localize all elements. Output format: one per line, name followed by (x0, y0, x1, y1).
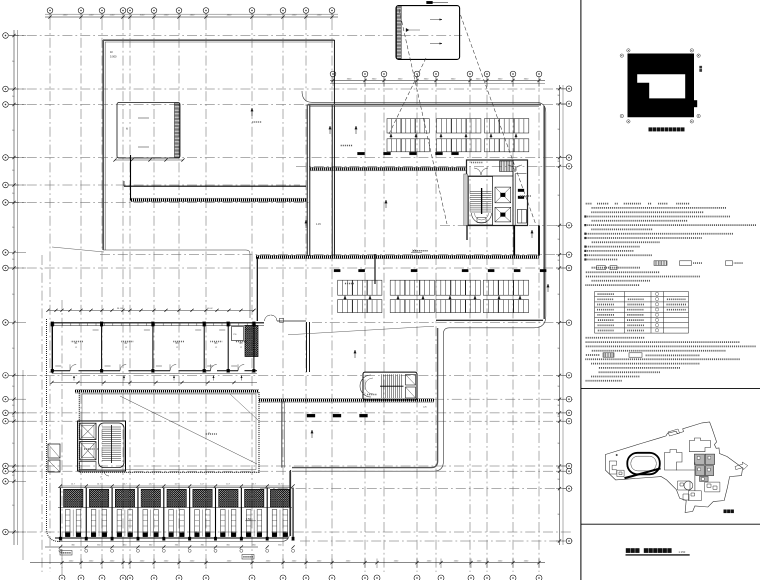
core U2 small room (80, 462, 96, 470)
key plan black figure (628, 54, 695, 118)
hatched wall bar hall top (75, 388, 259, 390)
site plan label (724, 510, 727, 514)
east wing south wall (436, 319, 543, 321)
stair S3 (99, 423, 124, 468)
shop unit 4 lower strips (143, 510, 148, 537)
shop unit 3 lower strips (117, 510, 122, 537)
east wing outer boundary (292, 91, 546, 471)
title panel separator (580, 0, 582, 580)
svg-text:20.02: 20.02 (207, 308, 213, 310)
top dimension line (45, 12, 338, 20)
shops row top lines (58, 487, 292, 489)
title underline (626, 554, 690, 555)
shop party walls (59, 488, 61, 541)
site dot (616, 454, 618, 456)
stair S1 west strip (464, 174, 468, 226)
corridor door arrows (73, 376, 75, 381)
core U1 top strip wall (467, 175, 514, 177)
notes after table (585, 338, 756, 381)
site west buildings (609, 461, 616, 474)
entrance door arcs (265, 315, 271, 321)
site arrow (735, 462, 748, 470)
bottom dimension lines (30, 545, 545, 568)
key plan corner targets (620, 54, 623, 57)
hall inner line (82, 394, 256, 470)
detached block top marker (427, 1, 433, 4)
lower building outer bottom boundary (58, 471, 290, 541)
section reference dashed diagonals (399, 9, 447, 224)
room divider walls (51, 326, 53, 371)
shop unit 3 hatch (115, 489, 134, 507)
annotation arrows (251, 108, 253, 116)
small dimension row above lower building (46, 308, 255, 312)
boxed labels bottom (60, 551, 72, 556)
shop unit 9 hatch (270, 489, 289, 507)
shop unit 5 lower strips (169, 510, 174, 537)
svg-text:1:150: 1:150 (679, 550, 686, 554)
notes continued (585, 272, 700, 285)
site center building 2 (689, 438, 710, 452)
legend symbols (654, 261, 667, 266)
left grid bubbles (3, 33, 9, 535)
hall west annex boxes (48, 444, 60, 458)
core U1 wall stubs (513, 226, 515, 256)
wall markers row C (307, 414, 315, 417)
detached block hatch strip (397, 6, 402, 59)
svg-text:1:50: 1:50 (246, 518, 251, 521)
bottom grid bubbles (59, 575, 542, 580)
left dimension lines (9, 30, 26, 560)
upper block north wall (103, 39, 335, 41)
core U1 hatch strip (500, 161, 514, 172)
shop unit 5 hatch (167, 489, 186, 507)
row grid lines (horizontal) (9, 36, 573, 542)
small dimension row below room 1 (113, 158, 184, 161)
general notes text block (584, 204, 756, 261)
parking lane arrows (390, 134, 392, 139)
interior wall L horizontal (124, 185, 306, 187)
shop unit 2 lower strips (91, 510, 96, 537)
wall markers row A (358, 152, 365, 155)
svg-text:1F: 1F (110, 50, 113, 54)
east yard boundary wall (292, 328, 438, 468)
corridor dimension row (50, 381, 257, 384)
upper block east wall (333, 40, 335, 256)
core U2 outline (78, 421, 126, 471)
stair S4 hatched block (245, 326, 258, 357)
rooms south wall with door openings (52, 370, 70, 372)
hatched wall bar 3 (256, 254, 539, 256)
lower building north wall (52, 322, 264, 324)
wall markers row B (334, 269, 340, 272)
lower building east wall (290, 470, 292, 536)
panel separator 3 (581, 523, 760, 525)
wall stub at bar3 west end (256, 257, 258, 321)
hall dotted border (79, 391, 259, 472)
parking stalls band 1 row 2 (387, 139, 429, 152)
panel separator 2 (581, 387, 760, 389)
parking stalls band 2 row 2 (338, 300, 382, 313)
elevator shaft E3 (80, 423, 96, 439)
site plan edge building (668, 429, 680, 436)
detached block outline (396, 6, 460, 60)
key plan caption (649, 127, 653, 131)
core U1 door arcs (474, 168, 488, 175)
secondary top dimension line (east wing) (330, 76, 545, 86)
shop unit 6 lower strips (195, 510, 200, 537)
elevator shaft E2 (495, 207, 511, 222)
site road line (694, 463, 696, 491)
running track (627, 453, 660, 475)
shop unit 1 lower strips (65, 510, 70, 537)
stair S2 treads (381, 374, 383, 398)
east wing grid bubbles (330, 71, 542, 77)
drawing title (626, 548, 630, 553)
shop unit 7 lower strips (221, 510, 226, 537)
hatched wall bar 1 (131, 197, 307, 199)
site plan boundary (605, 422, 742, 513)
terrace dotted boundary west (47, 319, 61, 542)
stair S2 outline (363, 372, 417, 400)
room door arcs (70, 365, 76, 371)
hall diagonals (120, 396, 257, 464)
top grid bubbles (47, 8, 335, 14)
room R1 labels (138, 117, 149, 119)
lower building north wall east segment (277, 320, 306, 322)
svg-text:5.000: 5.000 (110, 55, 117, 59)
stair S3 door arc (104, 471, 109, 476)
shop unit 8 hatch (245, 489, 264, 507)
svg-text:38.100: 38.100 (117, 308, 124, 310)
right grid bubbles (566, 86, 572, 544)
east wing north wall (308, 104, 541, 106)
shop unit 8 lower strips (246, 510, 251, 537)
core U1 outline (467, 160, 528, 226)
shop unit 6 hatch (193, 489, 212, 507)
parking stalls band 2 row 1 (338, 280, 382, 295)
shop unit 4 hatch (141, 489, 160, 507)
room R1 outline (117, 103, 180, 159)
right dimension line (556, 85, 566, 545)
shop unit 1 hatch (64, 489, 83, 507)
hatched wall bar 4 (259, 398, 434, 400)
upper block west wall (102, 40, 104, 250)
hatched wall bar 2 (310, 166, 466, 168)
shop unit 7 hatch (219, 489, 238, 507)
stair S2 side boxes (406, 375, 416, 386)
interior wall L vertical (130, 155, 132, 201)
detached block labels (430, 19, 442, 21)
site center building 1 (665, 450, 683, 471)
elevator shaft E4 (80, 442, 96, 460)
shops bottom wall (55, 537, 288, 539)
elevator shaft E1 (495, 187, 511, 203)
shop unit dimension row (59, 484, 295, 488)
corridor walls (306, 105, 308, 256)
core U1 east rooms (512, 160, 514, 226)
column grid lines (vertical) (42, 20, 539, 578)
room interior details (71, 341, 83, 343)
subject buildings (gray) (694, 454, 714, 481)
materials table (595, 292, 689, 334)
small label smudges in plan (340, 145, 353, 147)
site lower buildings (684, 481, 693, 490)
yard diagonal line (288, 326, 434, 335)
shop wall reference circles (59, 549, 62, 552)
east wing east wall (543, 106, 545, 319)
room R1 hatch strip (175, 103, 180, 158)
shop unit 2 hatch (89, 489, 108, 507)
svg-text:1.15: 1.15 (316, 223, 321, 226)
shop strip dark bottoms (65, 533, 70, 537)
key plan side note (700, 66, 702, 68)
parking stalls band 1 row 1 (387, 119, 429, 133)
upper block outer boundary (104, 42, 106, 250)
svg-text:1:50: 1:50 (412, 250, 417, 253)
shop unit 9 lower strips (272, 510, 277, 537)
stair S2 curved wall (360, 375, 371, 397)
yard west wall pair (281, 401, 283, 468)
stair S1 treads (468, 177, 492, 226)
